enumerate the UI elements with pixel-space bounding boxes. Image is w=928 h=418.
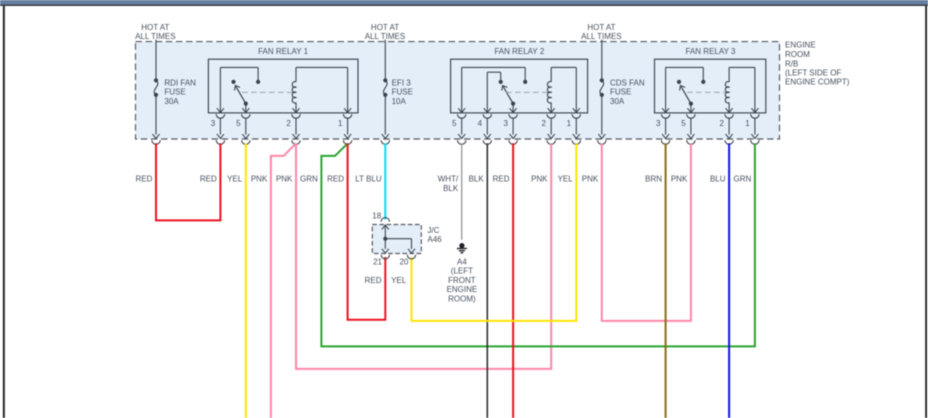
wire segment to R/B border at x=729.1 bbox=[725, 118, 733, 145]
svg-text:LT BLU: LT BLU bbox=[355, 175, 382, 184]
relay U1 pin 2 terminal bbox=[286, 108, 300, 128]
svg-text:BRN: BRN bbox=[645, 175, 662, 184]
fuse F3 CDS FAN 30A with feed wire bbox=[598, 40, 606, 145]
J/C A46 junction dot bbox=[383, 237, 387, 241]
wire segment to R/B border at x=487.3 bbox=[483, 118, 491, 145]
svg-text:GRN: GRN bbox=[300, 175, 318, 184]
svg-text:PNK: PNK bbox=[582, 175, 599, 184]
svg-text:J/C: J/C bbox=[427, 226, 439, 235]
svg-text:A46: A46 bbox=[427, 235, 442, 244]
svg-text:FRONT: FRONT bbox=[448, 276, 476, 285]
svg-text:HOT AT: HOT AT bbox=[587, 23, 615, 32]
svg-text:HOT AT: HOT AT bbox=[141, 23, 169, 32]
svg-text:BLU: BLU bbox=[710, 175, 726, 184]
relay U1 coil bracket to pin 1 bbox=[296, 67, 348, 112]
svg-text:YEL: YEL bbox=[558, 175, 574, 184]
svg-text:GRN: GRN bbox=[734, 175, 752, 184]
svg-text:PNK: PNK bbox=[671, 175, 688, 184]
svg-text:ROOM): ROOM) bbox=[448, 295, 476, 304]
wire segment to R/B border at x=347.6 bbox=[343, 118, 351, 145]
wire GRN relay U1 pin 1 to relay U3 pin 1 bbox=[321, 143, 755, 346]
wire BLU relay U3 pin 2 to bottom bbox=[728, 143, 730, 418]
svg-text:1: 1 bbox=[745, 119, 750, 128]
svg-text:A4: A4 bbox=[457, 257, 467, 266]
fuse F2 EFI 3 10A with feed wire bbox=[381, 40, 389, 145]
frame border left bbox=[3, 6, 5, 418]
relay U2 arm pivot dot bbox=[511, 102, 515, 106]
svg-text:FAN RELAY 3: FAN RELAY 3 bbox=[686, 47, 737, 56]
relay U3 pin 3 terminal bbox=[656, 108, 670, 128]
label EFI 3 FUSE 10A bbox=[392, 78, 413, 106]
wire segment to R/B border at x=690.9 bbox=[687, 118, 695, 145]
svg-text:5: 5 bbox=[236, 119, 241, 128]
svg-text:FUSE: FUSE bbox=[164, 88, 185, 97]
svg-text:21: 21 bbox=[373, 258, 382, 267]
wire RED fuse F1 to relay U1 pin 3 (U-loop) bbox=[156, 143, 220, 220]
svg-text:RED: RED bbox=[327, 175, 344, 184]
window title bar bbox=[0, 0, 928, 5]
svg-text:RED: RED bbox=[136, 175, 153, 184]
svg-text:ALL TIMES: ALL TIMES bbox=[581, 32, 621, 41]
relay U1 pin 5 terminal bbox=[236, 108, 250, 128]
svg-text:1: 1 bbox=[338, 119, 343, 128]
node 18 connector cap bbox=[381, 218, 389, 222]
wire segment to R/B border at x=461.7 bbox=[458, 118, 466, 145]
relay U2 pin 4 terminal bbox=[478, 108, 492, 128]
wire segment to R/B border at x=245.8 bbox=[242, 118, 250, 145]
relay U1 pin 3 terminal bbox=[211, 108, 225, 128]
svg-text:(LEFT: (LEFT bbox=[451, 267, 473, 276]
label ENGINE ROOM R/B (LEFT SIDE OF ENGINE COMPT) bbox=[785, 41, 850, 87]
J/C A46 pin 21 connector cup bbox=[381, 255, 389, 259]
relay U3 fixed contact dot bbox=[701, 80, 705, 84]
svg-text:3: 3 bbox=[503, 119, 508, 128]
relay U2 pin 4 leg and L-link bbox=[487, 72, 500, 112]
relay U3 mechanical link (dashed) bbox=[687, 91, 725, 93]
svg-text:BLK: BLK bbox=[469, 175, 485, 184]
svg-text:FUSE: FUSE bbox=[392, 88, 413, 97]
relay U3 FAN RELAY 3 box bbox=[655, 59, 766, 113]
relay U3 pin 5 terminal bbox=[681, 108, 695, 128]
svg-text:BLK: BLK bbox=[443, 184, 459, 193]
title bar bottom edge bbox=[0, 5, 928, 6]
svg-text:RED: RED bbox=[200, 175, 217, 184]
wire PNK relay U1 pin 2 to relay U2 pin 2 bbox=[296, 143, 551, 369]
svg-text:ENGINE: ENGINE bbox=[785, 41, 816, 50]
wire RED relay U1 pin 1 to J/C A46 pin 21 bbox=[348, 143, 386, 320]
relay U2 switch arm with arrow bbox=[500, 84, 513, 104]
relay U2 pin 5 leg and bracket bbox=[462, 67, 526, 112]
relay U1 switch arm with arrow bbox=[233, 84, 246, 104]
wire segment to R/B border at x=551.2 bbox=[547, 118, 555, 145]
svg-text:2: 2 bbox=[542, 119, 547, 128]
wire BLK relay U2 pin 4 to bottom bbox=[486, 143, 488, 418]
svg-text:5: 5 bbox=[452, 119, 457, 128]
frame border right bbox=[925, 6, 927, 418]
label HOT AT ALL TIMES (1) bbox=[135, 23, 175, 41]
relay U3 pin 2 terminal bbox=[719, 108, 733, 128]
svg-text:ALL TIMES: ALL TIMES bbox=[365, 32, 405, 41]
svg-text:30A: 30A bbox=[610, 97, 625, 106]
svg-text:3: 3 bbox=[656, 119, 661, 128]
relay U2 coil bbox=[547, 67, 551, 112]
svg-text:ALL TIMES: ALL TIMES bbox=[135, 32, 175, 41]
label RDI FAN FUSE 30A bbox=[164, 78, 196, 106]
wire YEL relay U1 pin 5 to bottom bbox=[245, 143, 247, 418]
svg-text:RED: RED bbox=[365, 276, 382, 285]
svg-text:FAN RELAY 1: FAN RELAY 1 bbox=[258, 47, 309, 56]
relay U2 pin 3 terminal bbox=[503, 108, 517, 128]
relay U3 switch arm with arrow bbox=[678, 84, 691, 104]
relay U2 FAN RELAY 2 box bbox=[451, 59, 588, 113]
svg-text:2: 2 bbox=[719, 119, 724, 128]
wire PNK fuse F3 to relay U3 pin 5 bbox=[602, 143, 691, 321]
relay U1 open contact dot bbox=[231, 80, 235, 84]
svg-text:1: 1 bbox=[567, 119, 572, 128]
svg-text:WHT/: WHT/ bbox=[438, 175, 459, 184]
svg-text:(LEFT SIDE OF: (LEFT SIDE OF bbox=[785, 68, 841, 77]
relay U1 arm pivot dot bbox=[244, 102, 248, 106]
svg-text:4: 4 bbox=[478, 119, 483, 128]
wire segment to R/B border at x=513.1 bbox=[509, 118, 517, 145]
label CDS FAN FUSE 30A bbox=[610, 78, 645, 106]
svg-text:EFI 3: EFI 3 bbox=[392, 78, 412, 87]
engine room R/B dashed box bbox=[136, 42, 780, 139]
svg-text:PNK: PNK bbox=[251, 175, 268, 184]
J/C A46 internal input arrow bbox=[382, 225, 389, 229]
svg-text:YEL: YEL bbox=[391, 276, 407, 285]
J/C A46 pin 20 connector cup bbox=[407, 255, 415, 259]
svg-text:30A: 30A bbox=[164, 97, 179, 106]
svg-text:RED: RED bbox=[493, 175, 510, 184]
wire RED relay U2 pin 3 to bottom bbox=[512, 143, 514, 418]
svg-text:CDS FAN: CDS FAN bbox=[610, 78, 645, 87]
J/C A46 internal bus bbox=[385, 225, 411, 249]
svg-text:ROOM: ROOM bbox=[785, 50, 810, 59]
wire WHT/BLK relay U2 pin 5 to ground A4 bbox=[461, 143, 463, 240]
svg-text:2: 2 bbox=[286, 119, 291, 128]
label A4 (LEFT FRONT ENGINE ROOM) bbox=[447, 257, 478, 303]
svg-text:FUSE: FUSE bbox=[610, 88, 631, 97]
svg-text:R/B: R/B bbox=[785, 59, 798, 68]
svg-text:RDI FAN: RDI FAN bbox=[164, 78, 196, 87]
relay U1 mechanical link (dashed) bbox=[242, 91, 292, 93]
J/C A46 output arrow pin 20 bbox=[408, 249, 415, 253]
relay U3 pin 3 leg and bracket bbox=[666, 67, 704, 112]
wire YEL J/C A46 pin 20 to relay U2 pin 1 bbox=[412, 143, 577, 321]
svg-text:10A: 10A bbox=[392, 97, 407, 106]
relay U1 pin 5 leg bbox=[245, 104, 247, 113]
relay U3 coil bbox=[725, 67, 729, 112]
relay U2 coil bracket to pin 1 bbox=[551, 67, 576, 112]
wire segment to R/B border at x=296.0 bbox=[292, 118, 300, 145]
wire BRN relay U3 pin 3 to bottom bbox=[665, 143, 667, 418]
ground A4 symbol bbox=[457, 243, 467, 253]
J/C A46 output arrow pin 21 bbox=[382, 249, 389, 253]
relay U2 movable contact dot bbox=[499, 80, 503, 84]
relay U2 mechanical link (dashed) bbox=[506, 91, 548, 93]
label J/C A46 bbox=[427, 226, 442, 244]
relay U1 coil bbox=[292, 67, 296, 112]
relay U3 pin 5 leg bbox=[690, 104, 692, 113]
label WHT/BLK bbox=[438, 175, 459, 193]
relay U2 fixed contact dot bbox=[523, 80, 527, 84]
relay U1 pin 1 terminal bbox=[338, 108, 352, 128]
svg-text:PNK: PNK bbox=[531, 175, 548, 184]
wire segment to R/B border at x=754.9 bbox=[751, 118, 759, 145]
svg-text:HOT AT: HOT AT bbox=[371, 23, 399, 32]
wire segment to R/B border at x=576.3 bbox=[572, 118, 580, 145]
wire LT BLU fuse F2 to J/C A46 pin 18 bbox=[384, 143, 386, 219]
svg-text:20: 20 bbox=[399, 258, 408, 267]
label HOT AT ALL TIMES (2) bbox=[365, 23, 405, 41]
relay U2 pin 2 terminal bbox=[542, 108, 556, 128]
svg-text:FAN RELAY 2: FAN RELAY 2 bbox=[494, 47, 545, 56]
svg-text:YEL: YEL bbox=[227, 175, 243, 184]
relay U3 coil bracket to pin 1 bbox=[729, 67, 755, 112]
wire PNK relay U1 pin 2 branch to bottom bbox=[271, 143, 296, 418]
relay U1 pin 3 leg and bracket bbox=[220, 67, 258, 112]
relay U2 pin 1 terminal bbox=[567, 108, 581, 128]
fuse F1 RDI FAN 30A with feed wire bbox=[152, 40, 160, 145]
svg-text:PNK: PNK bbox=[276, 175, 293, 184]
wire segment to R/B border at x=665.6 bbox=[661, 118, 669, 145]
svg-text:ENGINE: ENGINE bbox=[447, 285, 478, 294]
svg-text:18: 18 bbox=[372, 212, 381, 221]
relay U2 pin 3 leg bbox=[512, 104, 514, 113]
relay U1 FAN RELAY 1 box bbox=[208, 59, 358, 113]
svg-text:5: 5 bbox=[681, 119, 686, 128]
svg-text:ENGINE COMPT): ENGINE COMPT) bbox=[785, 78, 850, 87]
relay U3 arm pivot dot bbox=[689, 102, 693, 106]
relay U3 open contact dot bbox=[677, 80, 681, 84]
relay U3 pin 1 terminal bbox=[745, 108, 759, 128]
relay U1 fixed contact dot bbox=[256, 80, 260, 84]
svg-text:3: 3 bbox=[211, 119, 216, 128]
wire segment to R/B border at x=220.4 bbox=[216, 118, 224, 145]
relay U2 pin 5 terminal bbox=[452, 108, 466, 128]
junction connector J/C A46 box bbox=[372, 225, 421, 254]
label HOT AT ALL TIMES (3) bbox=[581, 23, 621, 41]
